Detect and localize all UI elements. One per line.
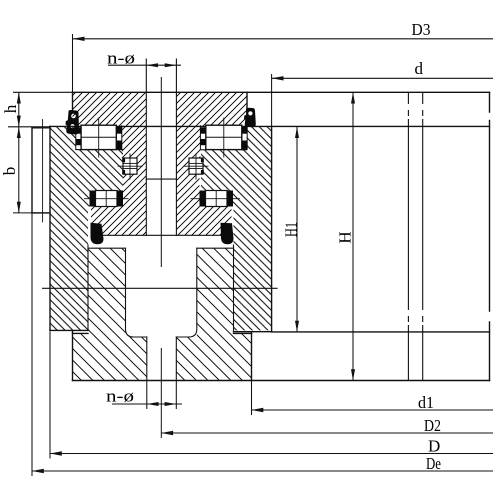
hole shoulder line bbox=[146, 178, 176, 180]
row1 bearing right black bits bbox=[200, 127, 247, 150]
outer ring left hatched region bbox=[50, 126, 123, 330]
row3 bearing left black strips bbox=[90, 191, 124, 207]
row2 bearing right bbox=[184, 154, 209, 180]
inner ring bottom lip bbox=[101, 234, 226, 236]
row2 bearing left bbox=[118, 154, 143, 180]
break line 2 bbox=[422, 92, 424, 380]
bolt hole lower walls bbox=[146, 337, 148, 381]
bearing shelf lines bbox=[76, 149, 81, 151]
n-o bottom dimension bbox=[112, 403, 182, 405]
outer ring right hatched region bbox=[201, 126, 272, 330]
ring right edge bbox=[271, 126, 273, 331]
D arrow bbox=[50, 451, 62, 455]
seam line across section bbox=[43, 287, 278, 289]
svg-text:d: d bbox=[415, 59, 424, 78]
svg-text:h: h bbox=[1, 104, 20, 113]
svg-text:D2: D2 bbox=[424, 416, 441, 435]
H dimension bbox=[352, 92, 354, 380]
base block tops bbox=[88, 247, 126, 249]
row3 bearing right black strips bbox=[200, 191, 234, 207]
gear pitch line bbox=[42, 120, 44, 223]
cavity right wall bbox=[176, 248, 197, 337]
row2 bearing left black bits bbox=[122, 158, 125, 174]
svg-text:n-ø: n-ø bbox=[107, 49, 135, 68]
De dimension bbox=[32, 470, 493, 472]
arrows bbox=[17, 37, 355, 474]
n-o top dimension bbox=[108, 64, 181, 66]
base block outer edges bbox=[87, 245, 89, 330]
ring bottom lines bbox=[50, 329, 88, 331]
svg-text:H1: H1 bbox=[282, 222, 301, 237]
base block right hatched bbox=[197, 248, 234, 333]
d arrow bbox=[272, 76, 284, 80]
seal right bottom (black blob) bbox=[221, 223, 234, 245]
D3 dimension line bbox=[73, 38, 494, 40]
H arrows bbox=[351, 92, 355, 103]
bottom flange top line bbox=[73, 332, 89, 334]
ring left edge bbox=[49, 126, 51, 330]
cavity left wall bbox=[126, 248, 147, 337]
base block left hatched bbox=[88, 248, 126, 333]
svg-text:D: D bbox=[428, 437, 440, 456]
seal right top (black blob) bbox=[244, 108, 256, 128]
centerline bolt axis bbox=[160, 77, 162, 438]
svg-text:H: H bbox=[336, 231, 355, 243]
row1 bearing left black bits bbox=[76, 127, 122, 150]
seal left bottom (black blob) bbox=[91, 223, 104, 245]
row2 bearing right black bits bbox=[201, 158, 204, 174]
H1 dimension bbox=[296, 127, 298, 332]
bottom flange left edge bbox=[72, 330, 74, 380]
row3 bearing right bbox=[191, 191, 241, 207]
De arrow bbox=[32, 469, 44, 473]
svg-text:D3: D3 bbox=[412, 20, 431, 39]
D2 dimension bbox=[161, 432, 493, 434]
n-o top arrows bbox=[146, 63, 158, 67]
top plate top line bbox=[73, 91, 490, 93]
elevation right edge bbox=[489, 92, 491, 380]
D dimension bbox=[50, 453, 493, 455]
d1 arrow bbox=[252, 408, 264, 412]
svg-text:n-ø: n-ø bbox=[106, 387, 134, 406]
svg-text:b: b bbox=[0, 167, 19, 176]
d dimension bbox=[272, 77, 493, 79]
flange right edge bbox=[246, 92, 248, 110]
inner ring right hatched region bbox=[176, 126, 231, 235]
h dimension bbox=[18, 92, 20, 127]
h arrows bbox=[17, 92, 21, 103]
inner ring left hatched region bbox=[91, 126, 146, 235]
seal left top (black blob) bbox=[66, 110, 80, 135]
d1 dimension bbox=[252, 409, 494, 411]
plate bottom / ring top line bbox=[50, 125, 490, 127]
row1 bearing right bbox=[200, 118, 247, 158]
D2 arrow bbox=[161, 431, 173, 435]
bottom flange hatched bbox=[73, 333, 252, 380]
b arrows bbox=[17, 127, 21, 138]
b dimension bbox=[18, 127, 20, 213]
gear tooth zone outline bbox=[32, 127, 50, 129]
bottom flange bottom line bbox=[73, 380, 490, 382]
break line 1 bbox=[408, 92, 422, 380]
top flange hatched region bbox=[73, 92, 248, 126]
svg-text:De: De bbox=[426, 454, 441, 473]
n-o bottom arrows bbox=[147, 402, 159, 406]
elevation flange top line bbox=[272, 331, 490, 333]
row3 bearing left bbox=[84, 191, 129, 207]
D3 arrow bbox=[73, 37, 85, 41]
flange left edge bbox=[72, 92, 74, 112]
bolt hole upper walls bbox=[145, 59, 147, 235]
row1 bearing left bbox=[76, 118, 122, 158]
H1 arrows bbox=[295, 127, 299, 138]
bottom flange right edge bbox=[251, 332, 253, 381]
svg-text:d1: d1 bbox=[418, 393, 434, 412]
